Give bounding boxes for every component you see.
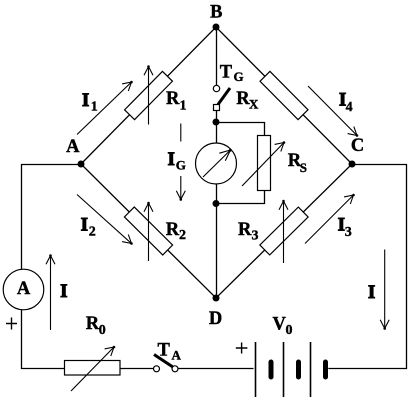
svg-text:3: 3 [345,225,352,240]
svg-text:T: T [158,341,171,361]
svg-text:2: 2 [89,225,96,240]
svg-text:I: I [368,283,375,303]
svg-text:1: 1 [91,100,98,115]
svg-text:D: D [209,309,222,329]
svg-text:I: I [168,150,175,170]
svg-text:1: 1 [180,99,187,114]
svg-text:V: V [273,315,287,335]
svg-text:0: 0 [286,323,293,338]
svg-text:X: X [249,96,259,111]
svg-text:I: I [60,282,67,302]
svg-text:2: 2 [179,228,186,243]
svg-text:A: A [66,137,80,157]
svg-text:C: C [351,136,364,156]
svg-text:S: S [300,160,307,175]
svg-text:4: 4 [346,100,353,115]
svg-text:R: R [86,314,100,334]
svg-text:0: 0 [99,323,106,338]
svg-text:R: R [166,89,180,109]
svg-text:A: A [172,347,182,362]
svg-text:3: 3 [252,228,259,243]
svg-text:B: B [210,3,222,23]
svg-text:T: T [220,62,233,82]
svg-text:G: G [176,158,186,173]
svg-text:A: A [17,279,31,299]
svg-text:R: R [166,220,180,240]
svg-text:I: I [81,216,88,236]
svg-text:I: I [82,91,89,111]
svg-text:R: R [238,220,252,240]
svg-text:G: G [234,69,244,84]
